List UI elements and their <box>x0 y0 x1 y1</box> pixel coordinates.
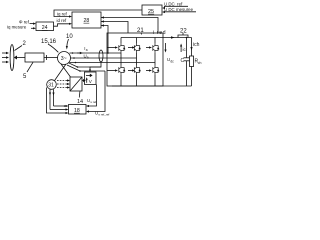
svg-text:3~: 3~ <box>61 56 67 62</box>
svg-text:s ref_ref: s ref_ref <box>98 112 109 116</box>
sensor outputs right (dashed arrows) <box>57 79 70 88</box>
svg-text:C: C <box>181 58 185 64</box>
U DC mesuree input <box>162 7 196 13</box>
regulator box 25 <box>142 5 162 15</box>
shaft link to sensor <box>55 64 67 81</box>
voltage tap line 1 <box>69 63 102 68</box>
right drop to load <box>191 38 193 57</box>
svg-text:18: 18 <box>74 108 80 114</box>
DC top rail <box>121 37 192 39</box>
svg-text:iq mesure: iq mesure <box>7 24 27 29</box>
load resistor Rch <box>190 56 202 67</box>
leg 1 <box>119 38 126 87</box>
svg-text:dc: dc <box>170 59 174 63</box>
U DC_ref input <box>162 2 188 10</box>
phase line a <box>70 46 122 54</box>
feedback wire 1 into 28 <box>101 16 158 33</box>
svg-text:28: 28 <box>84 18 90 24</box>
ich label <box>190 42 199 51</box>
shaft low-speed <box>17 57 25 59</box>
MLI box 18 <box>69 105 87 115</box>
label 10 <box>66 34 74 50</box>
wind arrows <box>2 52 9 63</box>
svg-text:U DC mesuree: U DC mesuree <box>164 7 194 12</box>
phase line c <box>70 62 156 64</box>
leg 2 <box>134 38 141 87</box>
leg 3 <box>153 38 160 87</box>
label 5 <box>23 62 33 80</box>
svg-text:s ref: s ref <box>90 100 96 104</box>
phase line b <box>71 53 137 59</box>
Us ref ref wire <box>86 71 110 116</box>
feedback wire 3 into 28 <box>101 24 109 53</box>
regulator box 28 <box>72 12 101 28</box>
wire id ref <box>54 18 73 26</box>
svg-text:10: 10 <box>66 34 73 40</box>
sensor output wire <box>90 62 101 71</box>
DC bottom rail <box>112 85 192 87</box>
svg-text:31: 31 <box>48 83 54 89</box>
Udc arrow <box>164 43 174 63</box>
control label iq mesure <box>7 24 36 29</box>
i red label <box>153 30 175 39</box>
gate wires upper <box>107 46 152 48</box>
svg-text:id ref: id ref <box>57 18 68 23</box>
svg-text:14: 14 <box>77 99 83 105</box>
svg-text:ich: ich <box>193 42 200 48</box>
control labels phi ref <box>19 19 36 24</box>
V box <box>85 72 97 85</box>
svg-text:22: 22 <box>180 29 187 35</box>
svg-text:25: 25 <box>148 9 154 15</box>
gate wires lower <box>107 69 152 71</box>
ic arrow <box>180 44 186 53</box>
transform box 14 <box>70 77 82 91</box>
current sensor 22 <box>178 29 188 38</box>
current sensor ellipse <box>99 50 103 62</box>
svg-text:i red: i red <box>153 30 166 36</box>
label 15,16 <box>41 39 58 52</box>
capacitor branch <box>181 37 190 86</box>
svg-text:iq ref: iq ref <box>57 11 68 16</box>
svg-text:U DC_ref: U DC_ref <box>164 2 183 7</box>
svg-text:a: a <box>86 48 88 52</box>
sensor outputs down <box>47 88 69 115</box>
arrow 14 to V box <box>82 80 85 82</box>
gearbox 5 <box>25 53 44 62</box>
generator 10 (15,16) <box>58 52 71 65</box>
wire iq ref <box>54 10 142 18</box>
svg-text:21: 21 <box>137 28 144 34</box>
svg-text:a: a <box>87 55 89 59</box>
svg-text:ch: ch <box>198 61 202 65</box>
label 14 <box>77 92 83 105</box>
label 2 <box>15 41 27 51</box>
regulator box 24 <box>36 22 54 31</box>
voltage tap line 2 <box>67 65 105 72</box>
label 21 <box>137 28 144 35</box>
shaft high-speed <box>44 55 58 60</box>
converter box 21 <box>107 33 163 86</box>
Us ref wire <box>86 85 97 108</box>
feedback wire 2 into 28 <box>101 20 128 33</box>
position sensor 31 <box>47 80 57 90</box>
link gen to transform <box>61 64 71 77</box>
svg-text:24: 24 <box>42 25 48 31</box>
hub nose <box>14 56 17 60</box>
blade 2 <box>10 45 14 71</box>
